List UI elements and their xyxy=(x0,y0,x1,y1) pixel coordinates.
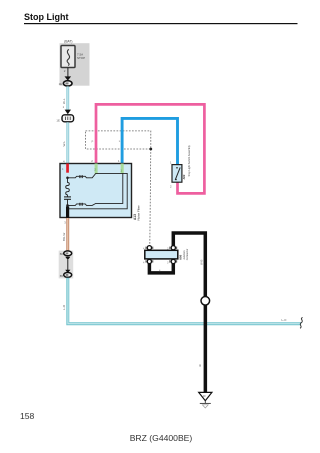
connector oval B6 xyxy=(60,251,72,256)
pin circle top-left xyxy=(143,246,153,251)
red pigtail stub pin 4 xyxy=(66,164,69,173)
svg-text:1F: 1F xyxy=(203,394,206,398)
svg-text:Connector: Connector xyxy=(186,248,189,260)
ground symbol 1F xyxy=(199,392,212,408)
wire W-L lower segment xyxy=(66,122,69,163)
link wire xyxy=(67,260,69,270)
junction connector A86 bar xyxy=(145,250,178,259)
capacitor C1 xyxy=(64,195,71,206)
wire L blue (to switch) xyxy=(122,118,177,164)
inductor L1 xyxy=(66,178,70,195)
pin circle top-right xyxy=(167,246,177,251)
black exit wire from noise filter xyxy=(66,206,69,218)
title Stop Light xyxy=(24,12,298,24)
inline connector pair shaded box xyxy=(59,251,73,279)
wire L-O teal (to stop lights) xyxy=(68,278,301,325)
inline connector 1E rounded xyxy=(56,115,73,123)
svg-text:A62: A62 xyxy=(182,174,186,179)
shield drain dashed wire xyxy=(150,149,151,246)
wire BR brown segment xyxy=(66,218,69,251)
fuse block shaded box xyxy=(60,39,90,85)
svg-text:4: 4 xyxy=(63,159,65,163)
continuation squiggle xyxy=(300,318,303,329)
svg-text:1E: 1E xyxy=(56,118,60,122)
connector oval B5 xyxy=(60,273,72,279)
svg-text:(BAT): (BAT) xyxy=(64,39,72,43)
svg-text:A86: A86 xyxy=(178,254,182,260)
svg-text:W-B: W-B xyxy=(199,259,203,265)
svg-text:L-O: L-O xyxy=(282,318,288,322)
label A13 Noise Filter xyxy=(133,205,141,220)
pin circle bottom-left xyxy=(143,259,153,264)
svg-text:1: 1 xyxy=(170,160,172,164)
green pigtail stub pin 1 xyxy=(121,164,124,174)
label A86 Junction Connector xyxy=(178,248,189,260)
arrow into inline connector xyxy=(65,110,71,115)
splice circle xyxy=(201,297,210,306)
internal wire top with connector symbol xyxy=(68,173,128,208)
svg-text:158: 158 xyxy=(20,411,35,421)
svg-text:Stop Light Switch Assembly: Stop Light Switch Assembly xyxy=(187,144,191,176)
stop light switch A62 box xyxy=(172,165,182,183)
noise filter A13 box xyxy=(60,164,132,218)
svg-text:1: 1 xyxy=(118,159,120,163)
svg-text:B: B xyxy=(199,363,201,367)
wire fuse to connector xyxy=(67,68,68,79)
internal wire inner loop xyxy=(68,173,123,205)
wire B thick black from junction top to lamp line xyxy=(173,233,205,296)
fuse F STOP 7.5A xyxy=(61,46,85,68)
wire B thick black U loop bottom of junction xyxy=(149,261,173,273)
svg-text:3: 3 xyxy=(64,221,66,225)
green pigtail stub pin 2 xyxy=(95,164,98,174)
svg-text:4: 4 xyxy=(143,262,145,265)
wire B thick black to ground xyxy=(204,305,208,392)
svg-text:2: 2 xyxy=(170,185,172,189)
svg-text:B5: B5 xyxy=(60,274,64,278)
svg-text:B6: B6 xyxy=(60,252,64,256)
pin circle bottom-right xyxy=(167,259,177,264)
svg-text:3: 3 xyxy=(167,262,169,265)
shield junction dot xyxy=(149,148,152,151)
node B xyxy=(66,204,69,207)
shield dashed box xyxy=(86,131,151,149)
svg-text:Stop Light: Stop Light xyxy=(24,12,69,22)
svg-text:1E: 1E xyxy=(59,82,63,86)
wire P pink (switch return loop) xyxy=(96,104,204,193)
arrow between connectors xyxy=(65,257,70,260)
svg-text:L: L xyxy=(119,139,121,143)
label A62 Stop Light Switch Assembly xyxy=(182,144,191,179)
svg-text:BR-W: BR-W xyxy=(62,233,66,241)
svg-text:2: 2 xyxy=(91,159,93,163)
svg-text:STOP: STOP xyxy=(77,56,85,60)
arrow into connector B5 xyxy=(65,270,70,273)
connector oval 1E (fuse block outlet) xyxy=(59,81,72,86)
svg-text:L-O: L-O xyxy=(62,304,66,310)
node A xyxy=(66,177,69,180)
svg-text:1: 1 xyxy=(63,105,65,109)
wire W-L upper segment xyxy=(66,86,69,110)
svg-text:P: P xyxy=(92,139,94,143)
svg-text:W-L: W-L xyxy=(62,141,66,147)
svg-text:W-L: W-L xyxy=(62,98,66,104)
arrow into connector xyxy=(65,76,72,80)
svg-text:Noise Filter: Noise Filter xyxy=(137,205,141,220)
svg-text:BRZ (G4400BE): BRZ (G4400BE) xyxy=(130,433,193,443)
